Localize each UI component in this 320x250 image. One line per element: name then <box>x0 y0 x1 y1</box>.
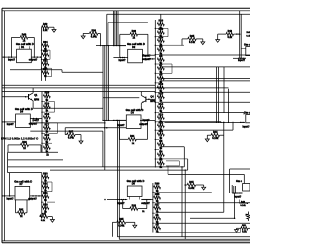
wire top loop drop <box>107 23 109 46</box>
svg-text:Gm c: Gm c <box>244 111 250 114</box>
ground G4 <box>201 42 205 45</box>
wire U9 pin net <box>232 192 243 194</box>
resistor R41 <box>18 209 26 218</box>
wire bus y170 <box>50 169 188 171</box>
wire R35 gnd lead <box>196 38 203 40</box>
svg-text:Gm cell with D: Gm cell with D <box>14 179 32 183</box>
node U2 in a <box>120 57 122 59</box>
wire R28 right drop <box>147 34 149 55</box>
wire R41 loop right <box>26 200 28 213</box>
wire R31 left lead <box>120 138 129 140</box>
node U5 pins <box>243 58 244 59</box>
wire U9 stub a <box>231 185 233 193</box>
wire R30 right drop <box>40 145 42 152</box>
wire chainB loop b1 <box>161 63 172 65</box>
wire R43 left lead <box>218 33 226 35</box>
node U8 out <box>147 199 148 200</box>
wire R46 right lead <box>28 36 35 38</box>
wire left drop x7 <box>7 152 9 172</box>
wire trunk T0 <box>106 14 108 45</box>
wire bus y169 <box>230 168 250 170</box>
ground G10 <box>235 230 239 233</box>
wire bus y55 <box>161 54 250 56</box>
wire trunk M2 <box>104 46 106 171</box>
node R43 bus <box>239 33 241 35</box>
node U2 in c <box>123 57 125 59</box>
wire vert x218 <box>218 67 220 123</box>
resistor R28 <box>130 30 138 39</box>
node bus120 <box>124 120 125 121</box>
wire loop drop x184 <box>183 147 185 167</box>
resistor chain B <box>155 20 165 169</box>
resistor chain C <box>41 92 50 154</box>
svg-text:0.3k: 0.3k <box>242 230 247 233</box>
svg-text:R19: R19 <box>45 102 50 105</box>
wire bus y236 <box>117 236 250 238</box>
svg-text:R31: R31 <box>43 192 48 195</box>
resistor R46 <box>20 33 28 42</box>
node U7 in b <box>4 195 6 197</box>
wire R45 gnd lead <box>196 184 204 186</box>
svg-text:input?: input? <box>234 195 242 198</box>
wire R30 right lead <box>29 144 42 146</box>
node bus120 <box>122 120 123 121</box>
node U8 out <box>143 199 144 200</box>
node R43 bus c <box>237 33 238 34</box>
wire R54 down to bus <box>99 33 101 45</box>
wire bus y112 <box>161 112 244 114</box>
wire trunk down x119 <box>118 120 120 199</box>
wire R43 right lead <box>234 33 240 35</box>
resistor chain A <box>41 41 49 81</box>
node U7 in a <box>1 195 3 197</box>
wire U8 stub b <box>139 197 141 200</box>
ground G5 <box>216 40 220 43</box>
svg-text:0.14k: 0.14k <box>212 137 219 140</box>
wire chainB loop a2 <box>167 28 169 36</box>
wire vert x216 <box>216 67 218 122</box>
wire R38 right lead <box>138 208 147 210</box>
wire chainB loop b2 <box>171 64 173 73</box>
node U4 left a <box>104 127 106 129</box>
node U8 in <box>123 199 124 200</box>
node bus120 <box>117 120 118 121</box>
svg-text:input?: input? <box>7 123 15 126</box>
svg-text:input?: input? <box>118 59 126 62</box>
resistor R50 edge <box>247 214 250 219</box>
wire bus y72 <box>62 71 103 73</box>
wire R46 right drop <box>33 37 35 57</box>
node x223 <box>223 122 225 124</box>
wire Q4 base net <box>149 98 156 100</box>
wire U3 out net a <box>30 118 42 120</box>
resistor R42 <box>42 23 49 32</box>
wire bus y14 <box>107 13 250 15</box>
wire jog x62 <box>61 70 63 73</box>
wire chainC tap3 <box>49 122 58 124</box>
transistor Q4 <box>141 93 149 105</box>
node bus45 <box>102 45 103 46</box>
transistor Q1 <box>25 91 33 103</box>
wire U9 stub c <box>234 186 236 193</box>
svg-text:R27: R27 <box>155 203 160 206</box>
svg-text:input?: input? <box>117 124 125 127</box>
wire R40 gnd lead <box>48 216 53 218</box>
wire trunk T4 <box>117 11 119 46</box>
node U7 in c <box>9 195 11 197</box>
wire R31 loop left <box>119 128 121 140</box>
node bus122 <box>241 122 242 123</box>
wire chainE bottom <box>157 232 240 234</box>
node R43 bus b <box>236 33 237 34</box>
wire Q4 emitter down <box>140 105 142 110</box>
wire chainE to R48 <box>239 228 241 232</box>
wire vert x185 <box>184 170 186 239</box>
wire U9 loop <box>239 202 247 204</box>
node U3 out a <box>33 118 35 120</box>
Gm cell U7 <box>14 179 32 200</box>
Gm cell U4 <box>126 108 144 129</box>
node U5 pins <box>241 58 242 59</box>
wire chainE tap3 <box>157 211 224 213</box>
wire bus y92 right <box>161 91 250 93</box>
node U4 left b <box>106 127 108 129</box>
wire Q1 emitter down <box>32 103 34 109</box>
node U8 out <box>149 199 150 200</box>
wire U2 out net a <box>142 54 155 56</box>
wire R30 left lead <box>8 144 21 146</box>
node Q1 base <box>25 96 27 98</box>
Gm cell U6 box clipped <box>246 115 252 123</box>
node x182 <box>181 166 183 168</box>
svg-text:R26: R26 <box>159 20 164 23</box>
wire R46 left lead <box>12 36 21 38</box>
svg-text:Gm cell with D: Gm cell with D <box>127 42 145 46</box>
node bus45 <box>106 45 107 46</box>
wire trunk down x117 <box>116 120 118 199</box>
node bus122 <box>223 122 224 123</box>
svg-text:R13: R13 <box>159 113 164 116</box>
resistor R37 <box>67 131 76 140</box>
wire bus y80 right <box>161 80 250 82</box>
svg-text:Gm cell with D: Gm cell with D <box>126 108 144 112</box>
ground G8 <box>133 225 137 228</box>
wire R28 left lead <box>120 33 130 35</box>
wire U7 top loop <box>8 172 42 174</box>
svg-text:R10: R10 <box>45 134 50 137</box>
wire U6 stub <box>243 113 245 115</box>
ground G6 <box>205 139 209 142</box>
node bus45 <box>104 45 105 46</box>
wire vert x228 <box>228 89 230 123</box>
svg-text:R17: R17 <box>45 123 50 126</box>
wire R41 right lead <box>25 212 27 214</box>
Gm cell U8 <box>127 179 145 197</box>
wire R45 left lead <box>185 184 187 186</box>
node U9 pins <box>239 192 240 193</box>
node U7 out a <box>32 195 34 197</box>
wire R37 left lead <box>65 134 67 136</box>
node bus120 <box>108 120 109 121</box>
resistor R48 <box>241 227 248 234</box>
wire R48 gnd drop <box>236 228 238 229</box>
node U2 out a <box>150 58 152 60</box>
node U9 pins <box>233 192 234 193</box>
wire chainD tap3 <box>47 201 55 203</box>
wire border top inner <box>2 10 250 12</box>
ground G2 <box>81 36 85 39</box>
wire border top outer <box>2 7 250 9</box>
node U1 out b <box>37 56 39 58</box>
node bus122 <box>240 122 241 123</box>
wire R30 loop bottom <box>8 151 58 153</box>
wire R48 left lead <box>237 227 241 229</box>
wire U8 output net <box>142 199 153 201</box>
Gm cell U5 box clipped <box>246 47 252 56</box>
svg-text:input?: input? <box>117 202 125 205</box>
node bus120 <box>117 120 118 121</box>
wire U3 input net <box>2 121 16 123</box>
wire chainA loop1 <box>49 50 51 59</box>
svg-text:R16: R16 <box>159 83 164 86</box>
node U8 in <box>125 199 126 200</box>
wire R44 gnd drop <box>206 135 208 139</box>
wire R35b gnd lead <box>126 221 135 223</box>
svg-text:Gm cell with D: Gm cell with D <box>15 107 33 111</box>
wire bus y97 <box>103 97 139 99</box>
wire R54 gnd drop <box>82 33 84 36</box>
resistor R30 <box>21 141 29 150</box>
node U8 in <box>117 199 118 200</box>
wire U8 input net <box>107 199 127 201</box>
node U8 in far <box>104 199 106 201</box>
wire chainE tap4 <box>157 222 250 224</box>
Gm cell U2 <box>127 42 145 63</box>
wire vert x233 <box>232 122 234 130</box>
svg-text:output?: output? <box>29 59 38 62</box>
wire R46 left drop <box>11 37 13 57</box>
wire loop drop x168 <box>167 166 169 175</box>
wire U5 left stub <box>241 48 246 50</box>
wire R54 right lead <box>98 32 101 34</box>
wire R42 gnd drop <box>53 27 55 29</box>
wire U1 input net <box>2 56 17 58</box>
wire U2 out net b <box>142 58 155 60</box>
Gm cell U9 box clipped <box>243 184 250 192</box>
svg-text:0.4k: 0.4k <box>246 35 250 38</box>
wire R40 gnd drop <box>51 217 53 220</box>
node U2 in b <box>122 57 124 59</box>
wire bus y120 <box>103 119 126 121</box>
wire border left outer <box>1 8 3 243</box>
wire trunk T3 <box>115 11 117 46</box>
svg-text:output?: output? <box>139 123 148 126</box>
wire bus y218 <box>190 217 235 219</box>
wire vert x223 <box>223 122 225 212</box>
svg-text:Gm c: Gm c <box>244 43 250 46</box>
wire R37 gnd lead <box>75 134 81 136</box>
node bus45 <box>124 45 125 46</box>
node bus122 <box>218 122 219 123</box>
svg-text:R15: R15 <box>159 92 164 95</box>
wire R38 loop left <box>122 200 124 209</box>
wire bus y174 <box>168 173 244 175</box>
node U5 pins <box>240 58 241 59</box>
svg-text:R14: R14 <box>159 103 164 106</box>
svg-text:R33: R33 <box>43 172 48 175</box>
node bus45 <box>108 45 109 46</box>
wire border bottom outer <box>2 242 250 244</box>
wire R41 left lead <box>16 212 18 214</box>
svg-text:R22: R22 <box>43 59 48 62</box>
wire border left inner <box>4 11 6 241</box>
svg-text:input?: input? <box>6 197 14 200</box>
wire y131 <box>30 130 103 132</box>
wire U8 stub a <box>128 197 130 200</box>
wire R35b left drop <box>112 222 114 236</box>
wire U4 net right <box>140 119 155 121</box>
node bus45 <box>116 45 117 46</box>
node bus122 <box>228 122 229 123</box>
wire U8 drop b <box>118 200 120 240</box>
node bus120 <box>113 120 114 121</box>
resistor chain D <box>41 172 49 216</box>
wire U7 input net <box>2 195 15 197</box>
wire R41 loop left <box>15 200 17 213</box>
resistor R54 <box>89 29 98 38</box>
svg-text:R39: R39 <box>155 183 160 186</box>
wire chainB tap y45 <box>161 44 184 46</box>
node U2 out b <box>152 58 154 60</box>
node U8 in <box>119 199 120 200</box>
svg-text:output?: output? <box>141 202 150 205</box>
node U9 loop <box>247 203 249 205</box>
wire bus y121 <box>161 121 221 123</box>
wire R31 loop right <box>147 120 149 139</box>
wire vert x182 <box>181 167 183 237</box>
ground G1 <box>52 30 56 33</box>
node bus120 <box>102 120 103 121</box>
wire border bottom inner <box>2 240 250 242</box>
wire U3 out net b <box>30 122 105 124</box>
wire R31 right lead <box>136 138 147 140</box>
svg-text:R29: R29 <box>45 92 50 95</box>
svg-text:NPN: NPN <box>34 98 39 101</box>
svg-text:(out)?: (out)? <box>33 119 40 122</box>
node U9 pins <box>235 192 236 193</box>
wire drop x244 <box>243 174 245 183</box>
svg-text:Gm c: Gm c <box>236 180 243 183</box>
wire R35 left drop <box>181 39 183 46</box>
wire trunk M3 <box>108 46 110 121</box>
svg-text:R23: R23 <box>43 50 48 53</box>
wire R35b left lead <box>113 221 117 223</box>
wire chainB bottom loop <box>166 161 179 166</box>
node U7 out b <box>35 195 37 197</box>
wire x234 drop <box>234 193 236 218</box>
svg-text:0.14k: 0.14k <box>189 41 196 44</box>
svg-text:2.2k: 2.2k <box>43 29 48 32</box>
svg-text:R32: R32 <box>43 182 48 185</box>
wire R43 gnd drop <box>217 34 219 40</box>
wire R44 left lead <box>207 134 211 136</box>
svg-text:Gm cell with D: Gm cell with D <box>127 179 145 183</box>
node bus45 <box>119 45 120 46</box>
wire bus y45 <box>96 45 126 47</box>
wire bus y91 <box>2 90 155 92</box>
wire U1 stub a <box>18 46 20 49</box>
node bus120 <box>120 120 121 121</box>
wire R42 gnd lead <box>49 26 54 28</box>
wire vert x224 <box>223 67 225 113</box>
wire U9 loop drop <box>238 200 240 204</box>
wire chainA tap2 <box>47 58 50 60</box>
resistor R35 <box>188 35 197 44</box>
wire chainB tap y146 <box>161 146 185 148</box>
wire R44 right lead <box>220 134 224 136</box>
wire loop drop x187 <box>187 159 189 170</box>
wire R37 up <box>64 128 66 135</box>
wire R40 left lead <box>40 216 42 218</box>
ground G3 <box>79 141 83 144</box>
svg-text:0.2k: 0.2k <box>227 36 232 39</box>
node bus45 <box>122 45 123 46</box>
svg-text:0.34k: 0.34k <box>91 35 98 38</box>
svg-text:input?: input? <box>8 59 16 62</box>
node bus120 <box>114 120 115 121</box>
node x234 <box>234 217 236 219</box>
svg-text:output?: output? <box>28 197 37 200</box>
ground G7 <box>50 220 54 223</box>
node U3 out b <box>36 118 38 120</box>
wire U8 drop a <box>116 200 118 237</box>
wire R37 gnd drop <box>80 135 82 141</box>
node Q4 base <box>148 99 150 101</box>
wire chainB top stub <box>160 14 162 20</box>
svg-text:input?: input? <box>242 125 250 128</box>
wire bus y78 <box>161 78 250 80</box>
wire trunk T2 <box>114 11 116 46</box>
wire R35 gnd drop <box>202 39 204 42</box>
node bus120 <box>106 120 107 121</box>
wire bus y239 <box>119 238 250 240</box>
node bus122 <box>220 122 221 123</box>
wire R50 top lead <box>248 212 250 215</box>
wire bus y102 <box>161 101 250 103</box>
node U8 out <box>141 199 142 200</box>
svg-text:Gm cell with D: Gm cell with D <box>16 42 34 46</box>
wire chainA tap4 <box>47 76 51 78</box>
svg-text:NPN: NPN <box>150 100 155 103</box>
node U3 in a <box>1 121 3 123</box>
wire R38 left lead <box>123 208 130 210</box>
wire chainC loop1 <box>54 102 56 113</box>
node U1 in a <box>3 56 5 58</box>
node U1 out a <box>34 56 36 58</box>
svg-text:0.34k: 0.34k <box>188 187 195 190</box>
wire left drop x9 <box>9 173 11 196</box>
wire chainD tap1 <box>47 181 52 183</box>
wire R30 left drop <box>7 145 9 152</box>
wire trunk T1 <box>112 11 114 46</box>
node bus45 <box>100 45 101 46</box>
Gm cell U1 <box>16 42 34 63</box>
wire chainD loop1 <box>51 182 53 192</box>
wire trunk M1 <box>102 46 104 121</box>
resistor R43 <box>226 30 234 39</box>
wire R45 gnd drop <box>203 185 205 187</box>
wire Q4 collector up <box>140 92 142 94</box>
